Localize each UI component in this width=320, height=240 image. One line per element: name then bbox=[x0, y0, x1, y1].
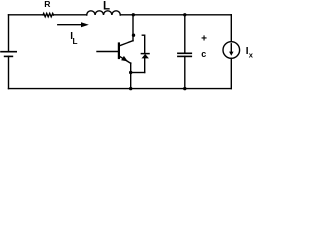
wire right vertical lower bbox=[230, 58, 232, 88]
svg-text:L: L bbox=[103, 1, 110, 13]
capacitor C top vertical bbox=[184, 15, 186, 54]
svg-text:c: c bbox=[201, 49, 206, 59]
wire emitter vertical bbox=[130, 63, 132, 89]
current source Ix arrow shaft bbox=[230, 44, 232, 52]
node dot collector-diode bbox=[132, 34, 135, 37]
wire top rail left segment bbox=[9, 14, 44, 16]
diode D1 triangle bbox=[142, 54, 149, 58]
battery top plate bbox=[1, 51, 16, 53]
transistor Q1 base bar bbox=[118, 44, 120, 59]
resistor R zigzag bbox=[43, 13, 54, 16]
wire collector vertical bbox=[132, 15, 134, 41]
wire left vertical lower bbox=[8, 56, 10, 88]
current source Ix arrowhead bbox=[229, 52, 233, 56]
current arrow IL head bbox=[81, 22, 89, 27]
transistor Q1 emitter arrowhead bbox=[121, 56, 128, 62]
wire diode lower vertical bbox=[144, 58, 146, 73]
transistor Q1 emitter diagonal bbox=[119, 56, 130, 63]
wire diode bottom horizontal bbox=[131, 72, 145, 74]
battery bottom plate bbox=[5, 55, 13, 57]
node dot bottom rail capacitor bbox=[183, 87, 186, 90]
svg-text:+: + bbox=[201, 33, 207, 44]
wire transistor base lead bbox=[97, 51, 119, 53]
wire top rail right segment bbox=[120, 14, 231, 16]
wire right vertical upper bbox=[230, 15, 232, 42]
node dot top rail collector bbox=[132, 13, 135, 16]
svg-text:R: R bbox=[44, 0, 51, 9]
wire top rail middle segment bbox=[53, 14, 86, 16]
capacitor C top plate bbox=[178, 52, 191, 54]
node dot top rail capacitor bbox=[183, 13, 186, 16]
diode D1 top stub bbox=[142, 35, 144, 53]
transistor Q1 collector diagonal bbox=[119, 41, 133, 46]
wire capacitor bottom vertical bbox=[184, 56, 186, 88]
node dot bottom rail emitter bbox=[129, 87, 132, 90]
node dot emitter-diode bbox=[129, 71, 132, 74]
current source Ix circle bbox=[223, 42, 240, 59]
current arrow IL shaft bbox=[58, 24, 82, 26]
svg-text:x: x bbox=[249, 50, 254, 59]
capacitor C bottom plate bbox=[178, 55, 191, 57]
svg-text:L: L bbox=[73, 37, 78, 46]
inductor L coils bbox=[87, 11, 121, 15]
diode D1 cathode bar bbox=[141, 53, 149, 55]
wire bottom rail bbox=[9, 88, 232, 90]
wire left vertical upper bbox=[8, 15, 10, 52]
